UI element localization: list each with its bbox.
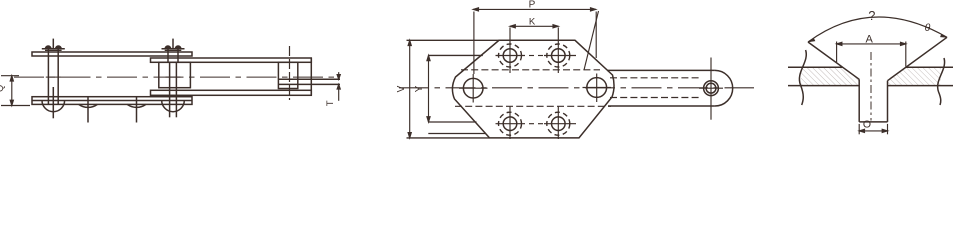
svg-text:Y: Y xyxy=(414,85,425,92)
svg-text:θ: θ xyxy=(925,22,931,34)
svg-text:Q: Q xyxy=(0,85,5,92)
svg-text:?: ? xyxy=(868,9,875,23)
svg-text:T: T xyxy=(325,100,336,106)
svg-text:A: A xyxy=(866,34,874,46)
svg-text:O: O xyxy=(863,119,871,131)
svg-text:K: K xyxy=(529,16,536,27)
svg-text:P: P xyxy=(529,0,536,11)
svg-text:V: V xyxy=(396,85,407,92)
